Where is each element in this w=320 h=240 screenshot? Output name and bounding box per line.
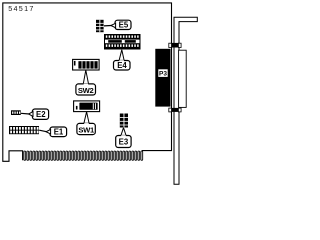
edge connector fingers <box>24 151 143 160</box>
top jack screw left <box>169 43 172 47</box>
svg-text:SW1: SW1 <box>78 125 95 134</box>
svg-text:E1: E1 <box>54 128 64 137</box>
connector P3 <box>155 49 170 107</box>
DB connector shell <box>179 50 187 107</box>
E1 pointer line <box>39 130 46 132</box>
top jack screw bar <box>171 43 178 48</box>
header strip E1 <box>9 126 39 134</box>
svg-text:E3: E3 <box>119 138 129 147</box>
svg-text:SW2: SW2 <box>78 86 94 95</box>
E2 label <box>29 109 49 119</box>
bottom jack screw right <box>178 108 181 112</box>
E3 label <box>116 135 131 147</box>
svg-text:E2: E2 <box>36 110 46 119</box>
svg-text:E4: E4 <box>117 61 127 70</box>
header E4 <box>104 34 141 50</box>
jumper block E3 <box>120 114 128 128</box>
E4 pointer <box>119 50 124 61</box>
bottom jack screw bar <box>171 108 178 112</box>
card outline <box>3 3 172 161</box>
SW2 pointer <box>83 70 88 84</box>
E3 pointer <box>121 128 126 136</box>
svg-text:54517: 54517 <box>8 4 35 13</box>
SW2 label <box>76 84 96 95</box>
SW1 pointer <box>84 112 89 124</box>
jumper strip E2 <box>11 110 21 115</box>
mounting bracket <box>174 17 197 184</box>
E4 label <box>114 60 131 70</box>
bottom jack screw left <box>169 108 172 112</box>
E5 label <box>111 20 131 29</box>
switch SW2 <box>73 59 100 70</box>
E5 pointer line <box>104 25 111 27</box>
switch SW1 <box>74 101 100 112</box>
svg-text:P3: P3 <box>159 71 167 78</box>
E2 pointer line <box>21 112 30 115</box>
svg-text:E5: E5 <box>119 20 129 29</box>
P3 label <box>158 69 167 77</box>
top jack screw right <box>178 43 181 47</box>
jumper block E5 <box>96 20 104 32</box>
SW1 label <box>77 123 95 135</box>
E1 label <box>46 127 67 137</box>
